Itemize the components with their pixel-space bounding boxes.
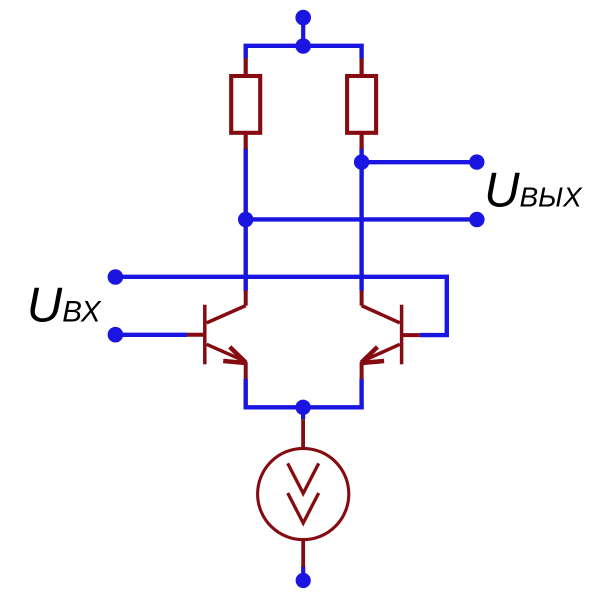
resistor R2 [347, 58, 376, 149]
node input upper terminal [108, 269, 124, 285]
svg-text:UВЫХ: UВЫХ [484, 164, 583, 218]
node output upper junction [354, 154, 369, 169]
transistor Q2 [361, 291, 420, 380]
node output lower terminal [469, 212, 484, 227]
node emitter junction [295, 400, 310, 415]
transistor Q1 [187, 291, 246, 380]
wire output upper [362, 160, 477, 164]
wire left collector branch [243, 148, 247, 291]
current source I1 [258, 419, 349, 567]
node output upper terminal [469, 154, 484, 169]
node input lower terminal [108, 327, 124, 343]
wire top supply stub [301, 18, 305, 46]
svg-text:UВХ: UВХ [27, 279, 102, 333]
wire Q2 emitter to bus [359, 379, 363, 408]
node output lower junction [238, 212, 253, 227]
wire output lower [246, 217, 477, 221]
wire Q1 emitter to bus [243, 379, 247, 408]
node top supply terminal [295, 10, 311, 26]
wire input lower to Q1 base [115, 333, 187, 337]
wire right collector branch [359, 148, 363, 291]
node bottom terminal [296, 573, 311, 588]
wire emitter bus [244, 405, 364, 409]
wire top bus [246, 46, 362, 59]
resistor R1 [231, 58, 260, 149]
wire bottom terminal stub [301, 566, 305, 574]
wire input upper to Q2 base [115, 277, 446, 335]
node top bus junction [295, 38, 311, 54]
wire current source top stub [301, 407, 305, 419]
